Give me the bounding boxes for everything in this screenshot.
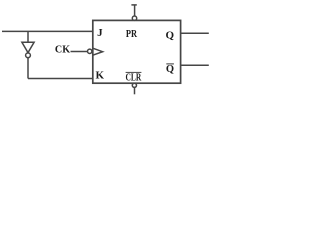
PR terminal bar [131, 4, 136, 6]
wire Qbar output [181, 64, 209, 66]
svg-text:CLR: CLR [126, 73, 142, 84]
svg-text:Q: Q [166, 29, 175, 41]
wire inverter output vertical [27, 58, 29, 79]
wire J input (top horizontal) [2, 30, 93, 32]
wire Q output [181, 32, 209, 34]
svg-text:CK: CK [55, 44, 71, 55]
clock edge chevron [93, 48, 103, 55]
CLR pin bubble [132, 83, 136, 87]
inverter U1 output bubble [26, 53, 31, 58]
Qbar overline [166, 63, 174, 65]
wire PR pin [134, 5, 136, 16]
wire CLR pin [134, 87, 136, 94]
svg-text:K: K [96, 69, 105, 81]
clock input bubble [88, 49, 92, 53]
svg-text:J: J [97, 27, 103, 39]
wire inverter input stub [27, 31, 29, 42]
svg-text:PR: PR [126, 29, 138, 40]
CLR overline [126, 71, 142, 73]
inverter U1 triangle [22, 42, 34, 52]
wire K input (bottom horizontal) [28, 78, 93, 80]
PR pin bubble [132, 16, 136, 20]
svg-text:Q: Q [166, 64, 174, 75]
wire CK to clock bubble [71, 51, 88, 53]
flip-flop U2 body [93, 20, 181, 83]
